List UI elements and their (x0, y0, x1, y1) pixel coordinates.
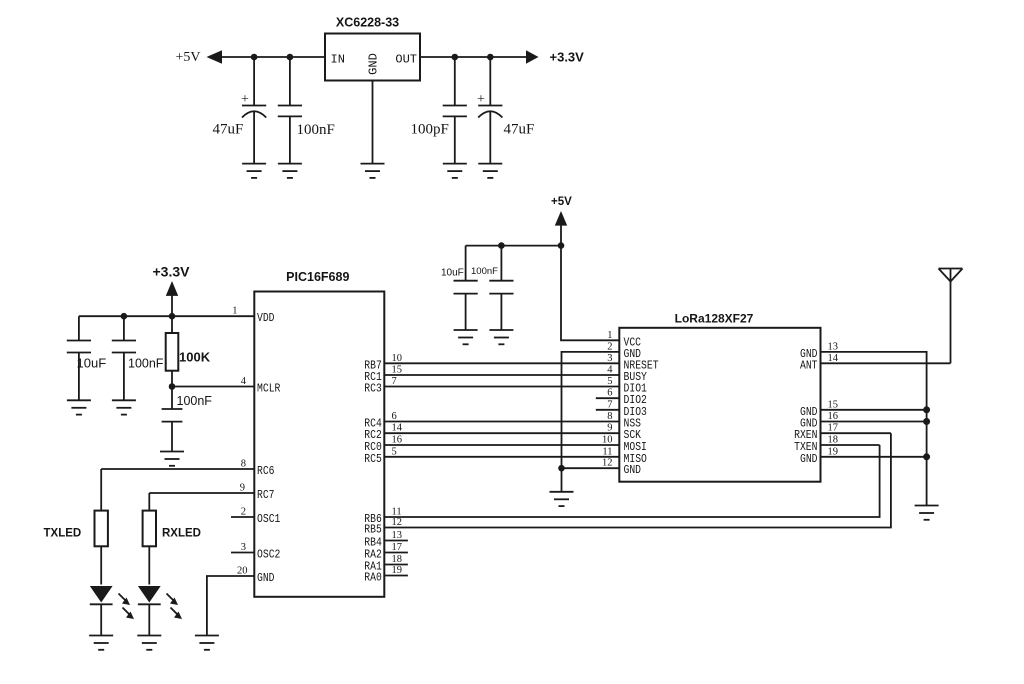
svg-text:GND: GND (367, 53, 381, 75)
node junction GND12 (558, 465, 565, 472)
wire RC6 (101, 468, 254, 470)
IC U3 LoRa128XF27 (619, 328, 820, 482)
wire VDD rail (79, 315, 254, 317)
node junction pin19 (923, 453, 930, 460)
svg-text:100pF: 100pF (411, 122, 449, 138)
svg-text:16: 16 (828, 411, 839, 422)
svg-text:18: 18 (828, 435, 839, 446)
svg-text:IN: IN (331, 53, 345, 67)
svg-text:OUT: OUT (395, 53, 417, 67)
node junction C2 (287, 54, 294, 61)
regulator U1 XC6228-33 (325, 16, 420, 81)
+5V arrow (555, 211, 567, 226)
ground under C3 (443, 164, 467, 178)
svg-text:+: + (241, 92, 249, 107)
svg-text:7: 7 (392, 376, 397, 387)
svg-text:100nF: 100nF (471, 266, 498, 277)
IC U2 PIC16F689 (254, 292, 384, 597)
svg-text:10: 10 (602, 435, 613, 446)
svg-text:6: 6 (392, 411, 397, 422)
svg-text:OSC2: OSC2 (257, 549, 280, 562)
svg-text:LoRa128XF27: LoRa128XF27 (675, 312, 754, 326)
wire +5V stem to VCC (561, 225, 619, 341)
wire cap rail (466, 245, 561, 247)
svg-text:1: 1 (607, 330, 612, 341)
svg-text:15: 15 (392, 365, 403, 376)
svg-text:18: 18 (392, 554, 403, 565)
wire GND2 to rail (562, 352, 620, 492)
capacitor C6 100nF (112, 316, 164, 400)
capacitor C9 100nF (471, 246, 514, 330)
svg-text:100nF: 100nF (297, 122, 335, 138)
ground under D1 (89, 636, 113, 650)
svg-text:+3.3V: +3.3V (550, 50, 585, 65)
svg-text:5: 5 (392, 446, 397, 457)
svg-text:MCLR: MCLR (257, 383, 280, 396)
+3.3V arrow (166, 281, 178, 296)
svg-text:13: 13 (392, 530, 403, 541)
ground under C8 (454, 330, 478, 344)
svg-text:19: 19 (828, 446, 839, 457)
wire +5V rail to regulator IN (221, 56, 325, 58)
capacitor C5 10uF (67, 316, 106, 400)
svg-text:RB5: RB5 (364, 524, 382, 537)
svg-text:+5V: +5V (176, 50, 201, 65)
svg-text:+5V: +5V (551, 196, 572, 208)
svg-text:11: 11 (602, 446, 612, 457)
LED D2 RX (138, 586, 182, 636)
node junction C6 (121, 313, 128, 320)
wire RC7 drop (148, 493, 150, 511)
svg-text:4: 4 (241, 376, 247, 387)
capacitor C3 100pF (411, 57, 467, 164)
svg-text:17: 17 (392, 542, 403, 553)
antenna ANT1 (939, 269, 963, 364)
svg-text:17: 17 (828, 423, 839, 434)
ground under C2 (278, 164, 302, 178)
wire GND12 (562, 467, 620, 469)
node junction C1 (251, 54, 258, 61)
ground under D2 (137, 636, 161, 650)
svg-text:VDD: VDD (257, 312, 275, 325)
svg-text:+: + (477, 92, 485, 107)
ground PIC GND (195, 636, 219, 650)
node junction rail-stem (558, 242, 565, 249)
svg-text:4: 4 (607, 365, 613, 376)
svg-text:RXLED: RXLED (162, 528, 201, 540)
svg-text:+3.3V: +3.3V (153, 264, 191, 280)
wire PIC GND pin20 (207, 576, 254, 636)
node junction R1 top (169, 313, 176, 320)
LED D1 TX (90, 586, 134, 636)
svg-text:10uF: 10uF (77, 356, 107, 371)
svg-text:2: 2 (607, 341, 612, 352)
svg-text:1: 1 (232, 306, 237, 317)
svg-text:3: 3 (241, 542, 246, 553)
svg-text:9: 9 (240, 483, 245, 494)
svg-text:RC3: RC3 (364, 383, 382, 396)
svg-text:PIC16F689: PIC16F689 (286, 270, 349, 284)
svg-text:6: 6 (607, 388, 612, 399)
capacitor C2 100nF (278, 57, 335, 164)
wire +3.3V stem (171, 295, 173, 316)
node junction pin16 (923, 418, 930, 425)
ground LoRa GND (550, 492, 574, 506)
capacitor C4 47uF polarized (477, 57, 534, 164)
node junction C4 (487, 54, 494, 61)
svg-text:100K: 100K (179, 350, 211, 365)
svg-text:TXLED: TXLED (44, 528, 82, 540)
svg-text:47uF: 47uF (504, 122, 535, 138)
ground under C5 (67, 400, 91, 414)
node junction MCLR (169, 383, 176, 390)
svg-text:20: 20 (237, 566, 248, 577)
svg-text:15: 15 (828, 399, 839, 410)
svg-text:RA0: RA0 (364, 572, 382, 585)
svg-text:19: 19 (392, 565, 403, 576)
svg-text:14: 14 (392, 423, 403, 434)
wire regulator GND pin (372, 81, 374, 164)
wire RC7 (149, 492, 254, 494)
+3.3V output arrow (526, 50, 539, 63)
resistor R2 TXLED (44, 511, 108, 585)
svg-text:11: 11 (392, 507, 402, 518)
capacitor C7 100nF (162, 394, 213, 452)
svg-text:12: 12 (392, 517, 403, 528)
svg-text:16: 16 (392, 435, 403, 446)
wire MCLR (172, 386, 254, 388)
ground under C4 (478, 164, 502, 178)
node junction pin15 (923, 406, 930, 413)
svg-text:RC6: RC6 (257, 465, 275, 478)
svg-text:GND: GND (624, 464, 642, 477)
svg-text:OSC1: OSC1 (257, 513, 280, 526)
svg-text:12: 12 (602, 458, 613, 469)
svg-text:7: 7 (607, 399, 612, 410)
ground right rail (915, 506, 939, 520)
svg-text:RC7: RC7 (257, 489, 275, 502)
resistor R1 100K (166, 316, 211, 409)
svg-text:10: 10 (392, 353, 403, 364)
resistor R3 RXLED (143, 511, 201, 585)
svg-text:3: 3 (607, 353, 612, 364)
svg-text:9: 9 (607, 423, 612, 434)
ground under C7 (160, 452, 184, 466)
ground under C9 (489, 330, 513, 344)
node junction C9 (498, 242, 505, 249)
ground under regulator (361, 164, 385, 178)
svg-text:8: 8 (241, 459, 246, 470)
node junction C3 (452, 54, 459, 61)
svg-text:10uF: 10uF (441, 268, 464, 279)
ground under C6 (112, 400, 136, 414)
svg-text:RC5: RC5 (364, 453, 382, 466)
svg-text:100nF: 100nF (177, 394, 213, 408)
svg-text:2: 2 (241, 507, 246, 518)
svg-text:GND: GND (257, 572, 275, 585)
svg-text:ANT: ANT (800, 359, 818, 372)
capacitor C1 47uF polarized (213, 57, 267, 164)
svg-text:13: 13 (828, 341, 839, 352)
wire regulator OUT rail (420, 56, 527, 58)
capacitor C8 10uF (441, 246, 478, 330)
svg-text:5: 5 (607, 376, 612, 387)
svg-text:8: 8 (607, 411, 612, 422)
svg-text:47uF: 47uF (213, 122, 244, 138)
wire RC6 drop (100, 469, 102, 511)
+5V input arrow (207, 50, 223, 63)
svg-text:14: 14 (828, 353, 839, 364)
svg-text:XC6228-33: XC6228-33 (336, 16, 399, 30)
svg-text:GND: GND (800, 453, 818, 466)
svg-text:100nF: 100nF (128, 357, 164, 371)
ground under C1 (242, 164, 266, 178)
